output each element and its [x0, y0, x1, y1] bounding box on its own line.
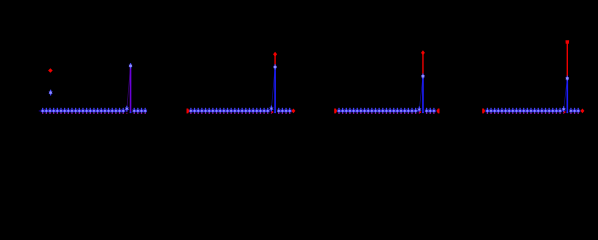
left red half-diamond	[482, 109, 485, 114]
blue asterisk markers	[486, 108, 488, 113]
baseline line	[335, 110, 419, 112]
baseline line	[483, 110, 564, 112]
spike line	[130, 66, 132, 113]
blue asterisk markers	[338, 108, 340, 113]
panel1	[39, 64, 147, 114]
panel4	[482, 40, 584, 114]
blue asterisk markers	[42, 108, 44, 113]
right red diamond	[580, 109, 584, 114]
panel3	[334, 50, 439, 114]
spike line	[422, 76, 424, 113]
right red diamond	[291, 109, 295, 114]
spike line	[274, 67, 276, 113]
spike top marker	[566, 76, 568, 80]
left red half-diamond	[334, 109, 337, 114]
spike top marker	[130, 64, 132, 68]
panel2	[187, 52, 296, 114]
red exact spike + diamond	[422, 53, 424, 76]
legend blue star	[50, 90, 52, 95]
baseline line	[187, 110, 271, 112]
red exact spike + diamond	[274, 54, 276, 67]
baseline line	[39, 110, 127, 112]
spike line	[566, 78, 568, 113]
legend red diamond	[48, 68, 53, 73]
spike top marker	[422, 74, 424, 78]
spike top marker	[274, 65, 276, 69]
blue asterisk markers	[190, 108, 192, 113]
left red half-diamond	[187, 109, 190, 114]
right red diamond	[437, 109, 440, 114]
red exact spike + diamond	[566, 42, 568, 78]
